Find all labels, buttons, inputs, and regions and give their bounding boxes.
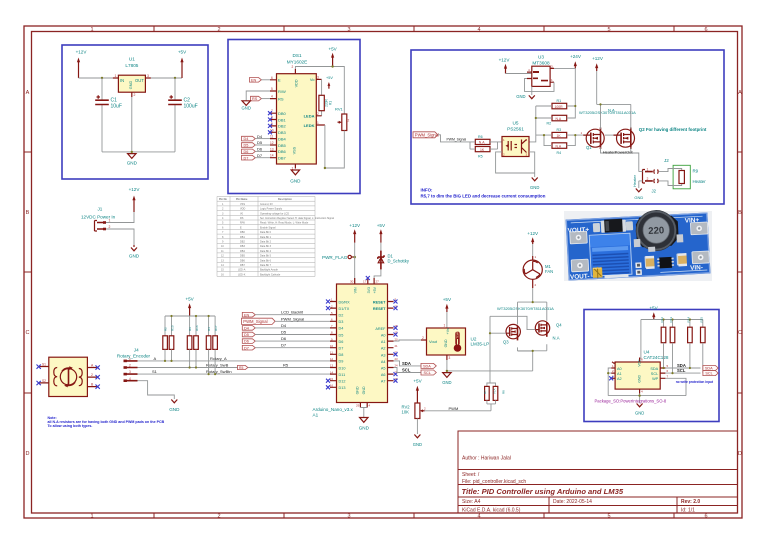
resistor R12a (187, 336, 192, 350)
connector J2 (632, 158, 669, 194)
svg-text:+5V: +5V (328, 47, 337, 52)
ground (530, 178, 539, 191)
drain bus to fan (518, 288, 547, 325)
photo background (564, 211, 712, 281)
row ticks left/right (24, 151, 32, 153)
transistor Q2 (608, 108, 707, 150)
svg-text:3: 3 (317, 75, 319, 79)
svg-text:3V3: 3V3 (367, 287, 371, 293)
svg-text:A1: A1 (381, 340, 386, 344)
svg-text:D6: D6 (339, 340, 344, 344)
svg-text:GND: GND (634, 195, 643, 200)
svg-text:5: 5 (607, 514, 610, 520)
svg-text:R5: R5 (283, 363, 289, 368)
power +5V (443, 297, 452, 328)
pins (40, 367, 97, 387)
VSS pin (292, 146, 297, 170)
svg-text:1: 1 (109, 219, 111, 223)
svg-text:6: 6 (704, 514, 707, 520)
blue group boxes (62, 40, 724, 422)
svg-text:L7805: L7805 (125, 63, 138, 68)
svg-text:R10: R10 (171, 325, 175, 331)
svg-text:Package_SO:PowerIntegrations_S: Package_SO:PowerIntegrations_SO-8 (595, 399, 667, 404)
labels D4-D7 (242, 134, 271, 161)
svg-text:1: 1 (115, 74, 117, 78)
svg-text:Author : Hariwan Jalal: Author : Hariwan Jalal (462, 456, 511, 462)
svg-text:R/W: R/W (240, 222, 246, 225)
svg-text:3: 3 (347, 27, 350, 33)
box LCD (228, 40, 360, 194)
svg-text:RESET: RESET (373, 307, 386, 311)
Vo pin & resistor R1 (310, 75, 334, 115)
power +12V above arduino (349, 223, 361, 243)
svg-text:U4: U4 (644, 350, 650, 355)
svg-text:CAT24C128: CAT24C128 (644, 355, 669, 360)
power +5V above arduino (377, 223, 386, 243)
power +5V (178, 50, 187, 79)
svg-text:30: 30 (350, 280, 354, 284)
svg-text:VDD: VDD (240, 208, 245, 211)
title block (458, 431, 738, 513)
svg-text:R2: R2 (547, 122, 552, 126)
svg-text:Heater: Heater (693, 179, 707, 184)
svg-text:DB7: DB7 (278, 156, 287, 161)
svg-text:Enable Signal: Enable Signal (260, 226, 276, 229)
power +5V (649, 306, 658, 320)
svg-text:+5V: +5V (413, 379, 422, 384)
svg-text:D7: D7 (257, 153, 263, 158)
svg-text:U3: U3 (538, 55, 544, 60)
svg-text:6: 6 (704, 27, 707, 33)
svg-text:R5: R5 (478, 154, 483, 158)
svg-text:D5: D5 (281, 330, 287, 335)
svg-text:14: 14 (270, 154, 274, 158)
PWR_FLAG (322, 255, 356, 260)
svg-text:PWM: PWM (449, 406, 459, 411)
svg-text:DB2: DB2 (240, 241, 245, 244)
svg-text:VOUT+: VOUT+ (567, 226, 589, 234)
svg-text:DB1: DB1 (278, 117, 287, 122)
drain rail (597, 71, 631, 129)
R5/R6 ties (470, 142, 502, 149)
+12V power right (592, 56, 604, 71)
wire (506, 73, 532, 75)
svg-text:10uF: 10uF (111, 104, 122, 110)
svg-text:DB5: DB5 (278, 143, 287, 148)
svg-text:2: 2 (292, 65, 294, 69)
resistor R5 (475, 147, 490, 159)
inductor (635, 209, 678, 252)
svg-text:RESET: RESET (373, 301, 386, 305)
svg-text:R/W: R/W (278, 89, 286, 94)
wire LM35 out to A1 (394, 340, 422, 341)
label D7 (242, 345, 255, 350)
capacitor C2 (168, 78, 197, 152)
svg-text:10K: 10K (402, 410, 410, 415)
ground (129, 245, 140, 259)
inductor base tabs (636, 215, 679, 247)
svg-text:PWM_Signal: PWM_Signal (281, 316, 304, 321)
svg-text:A6: A6 (381, 373, 386, 377)
svg-text:GND: GND (635, 411, 644, 416)
svg-text:A2: A2 (381, 347, 386, 351)
svg-text:D7: D7 (281, 343, 287, 348)
svg-text:GND: GND (129, 81, 133, 90)
transistor Q1 (581, 128, 605, 150)
svg-text:Id: 1/1: Id: 1/1 (681, 508, 695, 514)
labels SDA SCL mid (394, 361, 437, 375)
svg-text:Rev: 2.0: Rev: 2.0 (681, 499, 700, 505)
svg-text:J2: J2 (664, 158, 669, 163)
ground (127, 154, 138, 166)
svg-text:+5V: +5V (178, 50, 187, 55)
svg-text:R4: R4 (557, 151, 562, 155)
LEDA LEDK pins (304, 112, 325, 128)
svg-text:Data Bit 7: Data Bit 7 (260, 264, 272, 267)
svg-text:GND: GND (242, 106, 251, 111)
svg-text:D7: D7 (244, 346, 249, 350)
svg-text:KiCad E.D.A. kicad (6.0.5): KiCad E.D.A. kicad (6.0.5) (462, 508, 521, 514)
label EN (242, 312, 255, 317)
svg-text:SCL: SCL (677, 368, 686, 373)
svg-text:Arduino_Nano_v3.x: Arduino_Nano_v3.x (313, 407, 354, 412)
svg-text:+5V: +5V (373, 286, 377, 293)
svg-text:A0: A0 (617, 367, 622, 371)
svg-text:A4: A4 (381, 360, 386, 364)
svg-text:WT3205/2SK3070/9T811A031A: WT3205/2SK3070/9T811A031A (497, 306, 554, 311)
svg-text:2: 2 (91, 373, 93, 377)
svg-text:D7: D7 (339, 347, 344, 351)
resistor R14 (688, 327, 693, 343)
ground (169, 400, 180, 413)
svg-text:VOUT-: VOUT- (570, 273, 590, 281)
svg-text:E: E (278, 78, 281, 83)
left tie bus (529, 106, 536, 142)
svg-text:VIN+: VIN+ (685, 217, 700, 225)
svg-text:INFO:: INFO: (421, 188, 433, 193)
resistor R10 (163, 336, 168, 350)
svg-text:DB4: DB4 (240, 250, 245, 253)
resistor R4 (544, 135, 575, 155)
svg-text:1: 1 (90, 27, 93, 33)
diode D1 schottky (374, 243, 410, 284)
svg-text:Data Bit 2: Data Bit 2 (260, 241, 272, 244)
wires bottom of LCD (295, 125, 325, 169)
svg-text:3: 3 (147, 74, 149, 78)
svg-text:Vo: Vo (310, 77, 315, 82)
svg-text:File: pid_controller.kicad_sch: File: pid_controller.kicad_sch (462, 479, 526, 485)
svg-text:100uF: 100uF (184, 104, 198, 110)
svg-text:Q3: Q3 (503, 340, 509, 345)
svg-text:VSS: VSS (240, 203, 245, 206)
svg-text:Q2 For having different footp: Q2 For having different footprint (639, 127, 707, 132)
svg-text:4: 4 (477, 27, 480, 33)
svg-text:D4: D4 (244, 327, 249, 331)
svg-text:Pin No: Pin No (219, 198, 227, 201)
svg-text:D12: D12 (339, 380, 346, 384)
svg-text:A0: A0 (381, 334, 386, 338)
svg-text:29: 29 (356, 404, 360, 408)
svg-text:DB6: DB6 (240, 259, 245, 262)
svg-text:D: D (26, 451, 30, 457)
power +12V (499, 58, 511, 74)
svg-text:no write protection input: no write protection input (676, 380, 714, 384)
svg-text:LED-K: LED-K (238, 273, 246, 276)
svg-text:RS: RS (240, 217, 244, 220)
ic (659, 257, 672, 269)
transistor Q3 (503, 324, 520, 344)
svg-text:R15: R15 (700, 317, 704, 323)
svg-text:Rotary_SwB: Rotary_SwB (206, 363, 229, 368)
svg-text:2: 2 (217, 27, 220, 33)
svg-text:D5: D5 (244, 333, 249, 337)
svg-text:R1: R1 (329, 101, 333, 105)
svg-text:GND: GND (530, 185, 539, 190)
svg-text:DB0: DB0 (278, 111, 287, 116)
svg-text:A: A (154, 356, 157, 361)
svg-text:R3: R3 (557, 128, 562, 132)
svg-text:OUT: OUT (135, 78, 144, 83)
svg-text:GND: GND (444, 339, 448, 347)
svg-text:100R: 100R (555, 105, 564, 109)
svg-text:SDA: SDA (402, 361, 411, 366)
svg-text:SDA: SDA (423, 365, 431, 369)
svg-text:Backlight Cathode: Backlight Cathode (260, 273, 281, 276)
resistor R15a (213, 336, 218, 350)
connector J4 rotary (117, 348, 174, 400)
svg-text:S2: S2 (42, 379, 46, 383)
svg-text:PWR_FLAG: PWR_FLAG (322, 255, 348, 260)
svg-text:+Vs: +Vs (446, 328, 450, 334)
svg-text:12: 12 (270, 141, 274, 145)
rotary encoder SW1 (37, 357, 100, 396)
svg-text:SDA: SDA (650, 367, 658, 371)
svg-text:D13: D13 (339, 386, 346, 390)
svg-text:GND: GND (362, 386, 366, 394)
svg-text:D1/TX: D1/TX (339, 307, 350, 311)
svg-text:220: 220 (648, 225, 665, 237)
svg-text:FAN: FAN (545, 269, 553, 274)
svg-text:WT3205/2SK3070/9T811A031A: WT3205/2SK3070/9T811A031A (579, 110, 636, 115)
svg-text:Data Bit 1: Data Bit 1 (260, 236, 272, 239)
box heater driver (411, 50, 724, 204)
ground (360, 418, 368, 423)
svg-text:D5: D5 (339, 333, 344, 337)
svg-text:+5V: +5V (326, 76, 333, 80)
svg-text:GND: GND (359, 426, 370, 431)
potentiometer RV2 (402, 379, 427, 435)
pcb (566, 212, 711, 280)
label D5 (242, 332, 255, 337)
svg-text:GND: GND (290, 179, 301, 184)
svg-text:DB7: DB7 (240, 264, 245, 267)
resistor R2 (536, 106, 576, 126)
svg-text:3: 3 (129, 370, 131, 374)
svg-text:DB0: DB0 (240, 231, 245, 234)
bottom pins (360, 403, 367, 408)
svg-text:5: 5 (607, 27, 610, 33)
svg-text:U1: U1 (129, 57, 135, 62)
svg-text:Rotary_Encoder: Rotary_Encoder (117, 354, 151, 359)
resistor R10/R11 pair (424, 383, 506, 411)
svg-text:A1: A1 (617, 372, 622, 376)
label EN (250, 78, 271, 83)
svg-text:DB3: DB3 (240, 245, 245, 248)
svg-text:Read / Write, H: Read Mode, L:: Read / Write, H: Read Mode, L: Write Mod… (260, 222, 309, 225)
caps bottom (646, 258, 655, 267)
svg-text:R6: R6 (478, 135, 483, 139)
svg-text:N.A: N.A (556, 117, 562, 121)
capacitor C1 (95, 78, 122, 152)
svg-text:RS: RS (278, 96, 284, 101)
wire (106, 212, 134, 245)
svg-text:D3: D3 (339, 320, 344, 324)
svg-text:D11: D11 (339, 373, 346, 377)
svg-text:R14: R14 (687, 317, 691, 323)
resistor R14a (206, 336, 211, 350)
box eeprom (584, 310, 719, 422)
wire +12V to VIN (354, 243, 356, 284)
junction (101, 77, 103, 79)
svg-text:Data Bit 0: Data Bit 0 (260, 231, 272, 234)
sensor U2 LM35 (421, 324, 489, 361)
svg-text:A1: A1 (313, 413, 319, 418)
svg-text:B: B (738, 210, 742, 216)
svg-text:21: 21 (395, 344, 399, 348)
svg-text:J2: J2 (652, 189, 657, 194)
ground (516, 94, 535, 99)
svg-text:12: 12 (330, 357, 334, 361)
ground (442, 373, 451, 385)
svg-text:2: 2 (422, 336, 424, 340)
svg-text:R3: R3 (188, 327, 192, 331)
resistor R1 (536, 99, 576, 109)
svg-text:DB4: DB4 (278, 136, 287, 141)
svg-text:+5V: +5V (185, 297, 194, 302)
wire bottom (102, 97, 175, 152)
svg-text:D4: D4 (281, 323, 287, 328)
svg-text:Logic Power Supply: Logic Power Supply (260, 208, 283, 211)
svg-text:VIN-: VIN- (690, 264, 703, 272)
svg-text:Q1: Q1 (586, 145, 592, 150)
svg-text:N.A: N.A (556, 144, 562, 148)
svg-text:R12: R12 (660, 317, 664, 323)
svg-text:D0/RX: D0/RX (339, 300, 351, 304)
svg-text:A2: A2 (617, 377, 622, 381)
svg-text:A3: A3 (381, 353, 386, 357)
svg-text:Operating voltage for LCD: Operating voltage for LCD (260, 212, 289, 215)
svg-text:GND: GND (413, 442, 422, 447)
svg-text:DB5: DB5 (240, 255, 245, 258)
svg-text:A7: A7 (381, 380, 386, 384)
svg-text:VDD: VDD (294, 79, 298, 87)
svg-text:2: 2 (348, 119, 350, 123)
svg-text:Rotary_A: Rotary_A (210, 356, 227, 361)
svg-text:Title: PID Controller using Ar: Title: PID Controller using Arduino and … (462, 487, 624, 496)
small white parts (635, 262, 641, 268)
svg-text:GND: GND (129, 254, 140, 259)
svg-text:+12V: +12V (527, 231, 539, 236)
svg-text:LEDA: LEDA (304, 114, 315, 119)
svg-text:R16: R16 (195, 325, 199, 331)
transistor Q4 (535, 321, 562, 341)
svg-text:15: 15 (330, 377, 334, 381)
label PWM_Signal (413, 132, 470, 142)
svg-text:SCL: SCL (651, 372, 658, 376)
svg-text:SCL: SCL (424, 371, 431, 375)
svg-text:HeaterPowerOut: HeaterPowerOut (603, 149, 634, 154)
svg-text:GND: GND (355, 386, 359, 394)
svg-text:SDA: SDA (705, 367, 713, 371)
svg-text:Vout: Vout (429, 339, 438, 344)
label RS (251, 96, 271, 101)
svg-text:Size: A4: Size: A4 (462, 499, 481, 505)
svg-text:U5: U5 (513, 121, 519, 126)
svg-text:SCL: SCL (705, 372, 712, 376)
svg-text:WP: WP (652, 377, 659, 381)
power +12V (76, 50, 88, 79)
svg-text:N.A: N.A (479, 141, 485, 145)
svg-text:14: 14 (330, 370, 334, 374)
svg-text:R1: R1 (557, 99, 562, 103)
svg-text:27: 27 (376, 280, 380, 284)
resistor R3 (536, 128, 583, 138)
svg-text:DB3: DB3 (278, 130, 287, 135)
svg-text:B: B (26, 210, 30, 216)
connector J1 (81, 207, 116, 232)
wires U3 out / +24V rail (554, 68, 575, 105)
screw (593, 267, 603, 277)
svg-text:Data Bit 3: Data Bit 3 (260, 245, 272, 248)
svg-text:AREF: AREF (375, 327, 386, 331)
resistor R13a (194, 336, 199, 350)
svg-text:D4: D4 (244, 137, 249, 141)
svg-text:S1: S1 (42, 363, 46, 367)
svg-text:To allow using both types.: To allow using both types. (48, 424, 93, 428)
svg-text:+12V: +12V (592, 56, 604, 61)
right pins (373, 298, 398, 384)
svg-text:R13: R13 (669, 317, 673, 323)
svg-text:Date: 2022-05-14: Date: 2022-05-14 (553, 499, 592, 505)
svg-text:+12V: +12V (499, 58, 511, 63)
svg-text:2: 2 (317, 112, 319, 116)
mid pads small (593, 219, 682, 271)
svg-text:D10: D10 (339, 366, 346, 370)
svg-text:2: 2 (129, 364, 131, 368)
eeprom U4 CAT24C128 (611, 350, 669, 394)
source rail to J2 (601, 147, 639, 171)
U5 pin2/pin3 to gnd (496, 152, 535, 177)
svg-text:D6: D6 (281, 336, 287, 341)
label D6 (242, 339, 255, 344)
svg-text:MT3608: MT3608 (532, 61, 550, 66)
svg-text:R5,7 to dim the BIG LED and de: R5,7 to dim the BIG LED and decrease cur… (421, 194, 546, 199)
svg-text:10: 10 (330, 344, 334, 348)
svg-text:13: 13 (270, 147, 274, 151)
svg-text:4: 4 (477, 514, 480, 520)
svg-text:11: 11 (330, 351, 333, 355)
svg-text:Sheet: /: Sheet: / (462, 472, 480, 478)
resistor R11 (169, 336, 174, 350)
ground (635, 404, 644, 416)
svg-text:MY1602E: MY1602E (287, 60, 308, 65)
top rail (641, 320, 703, 360)
left pins D0-D13 (326, 298, 350, 390)
svg-text:Heater: Heater (632, 174, 637, 187)
svg-text:A: A (738, 90, 742, 96)
label PWM_Signal (242, 318, 276, 324)
svg-text:R7: R7 (483, 390, 487, 394)
